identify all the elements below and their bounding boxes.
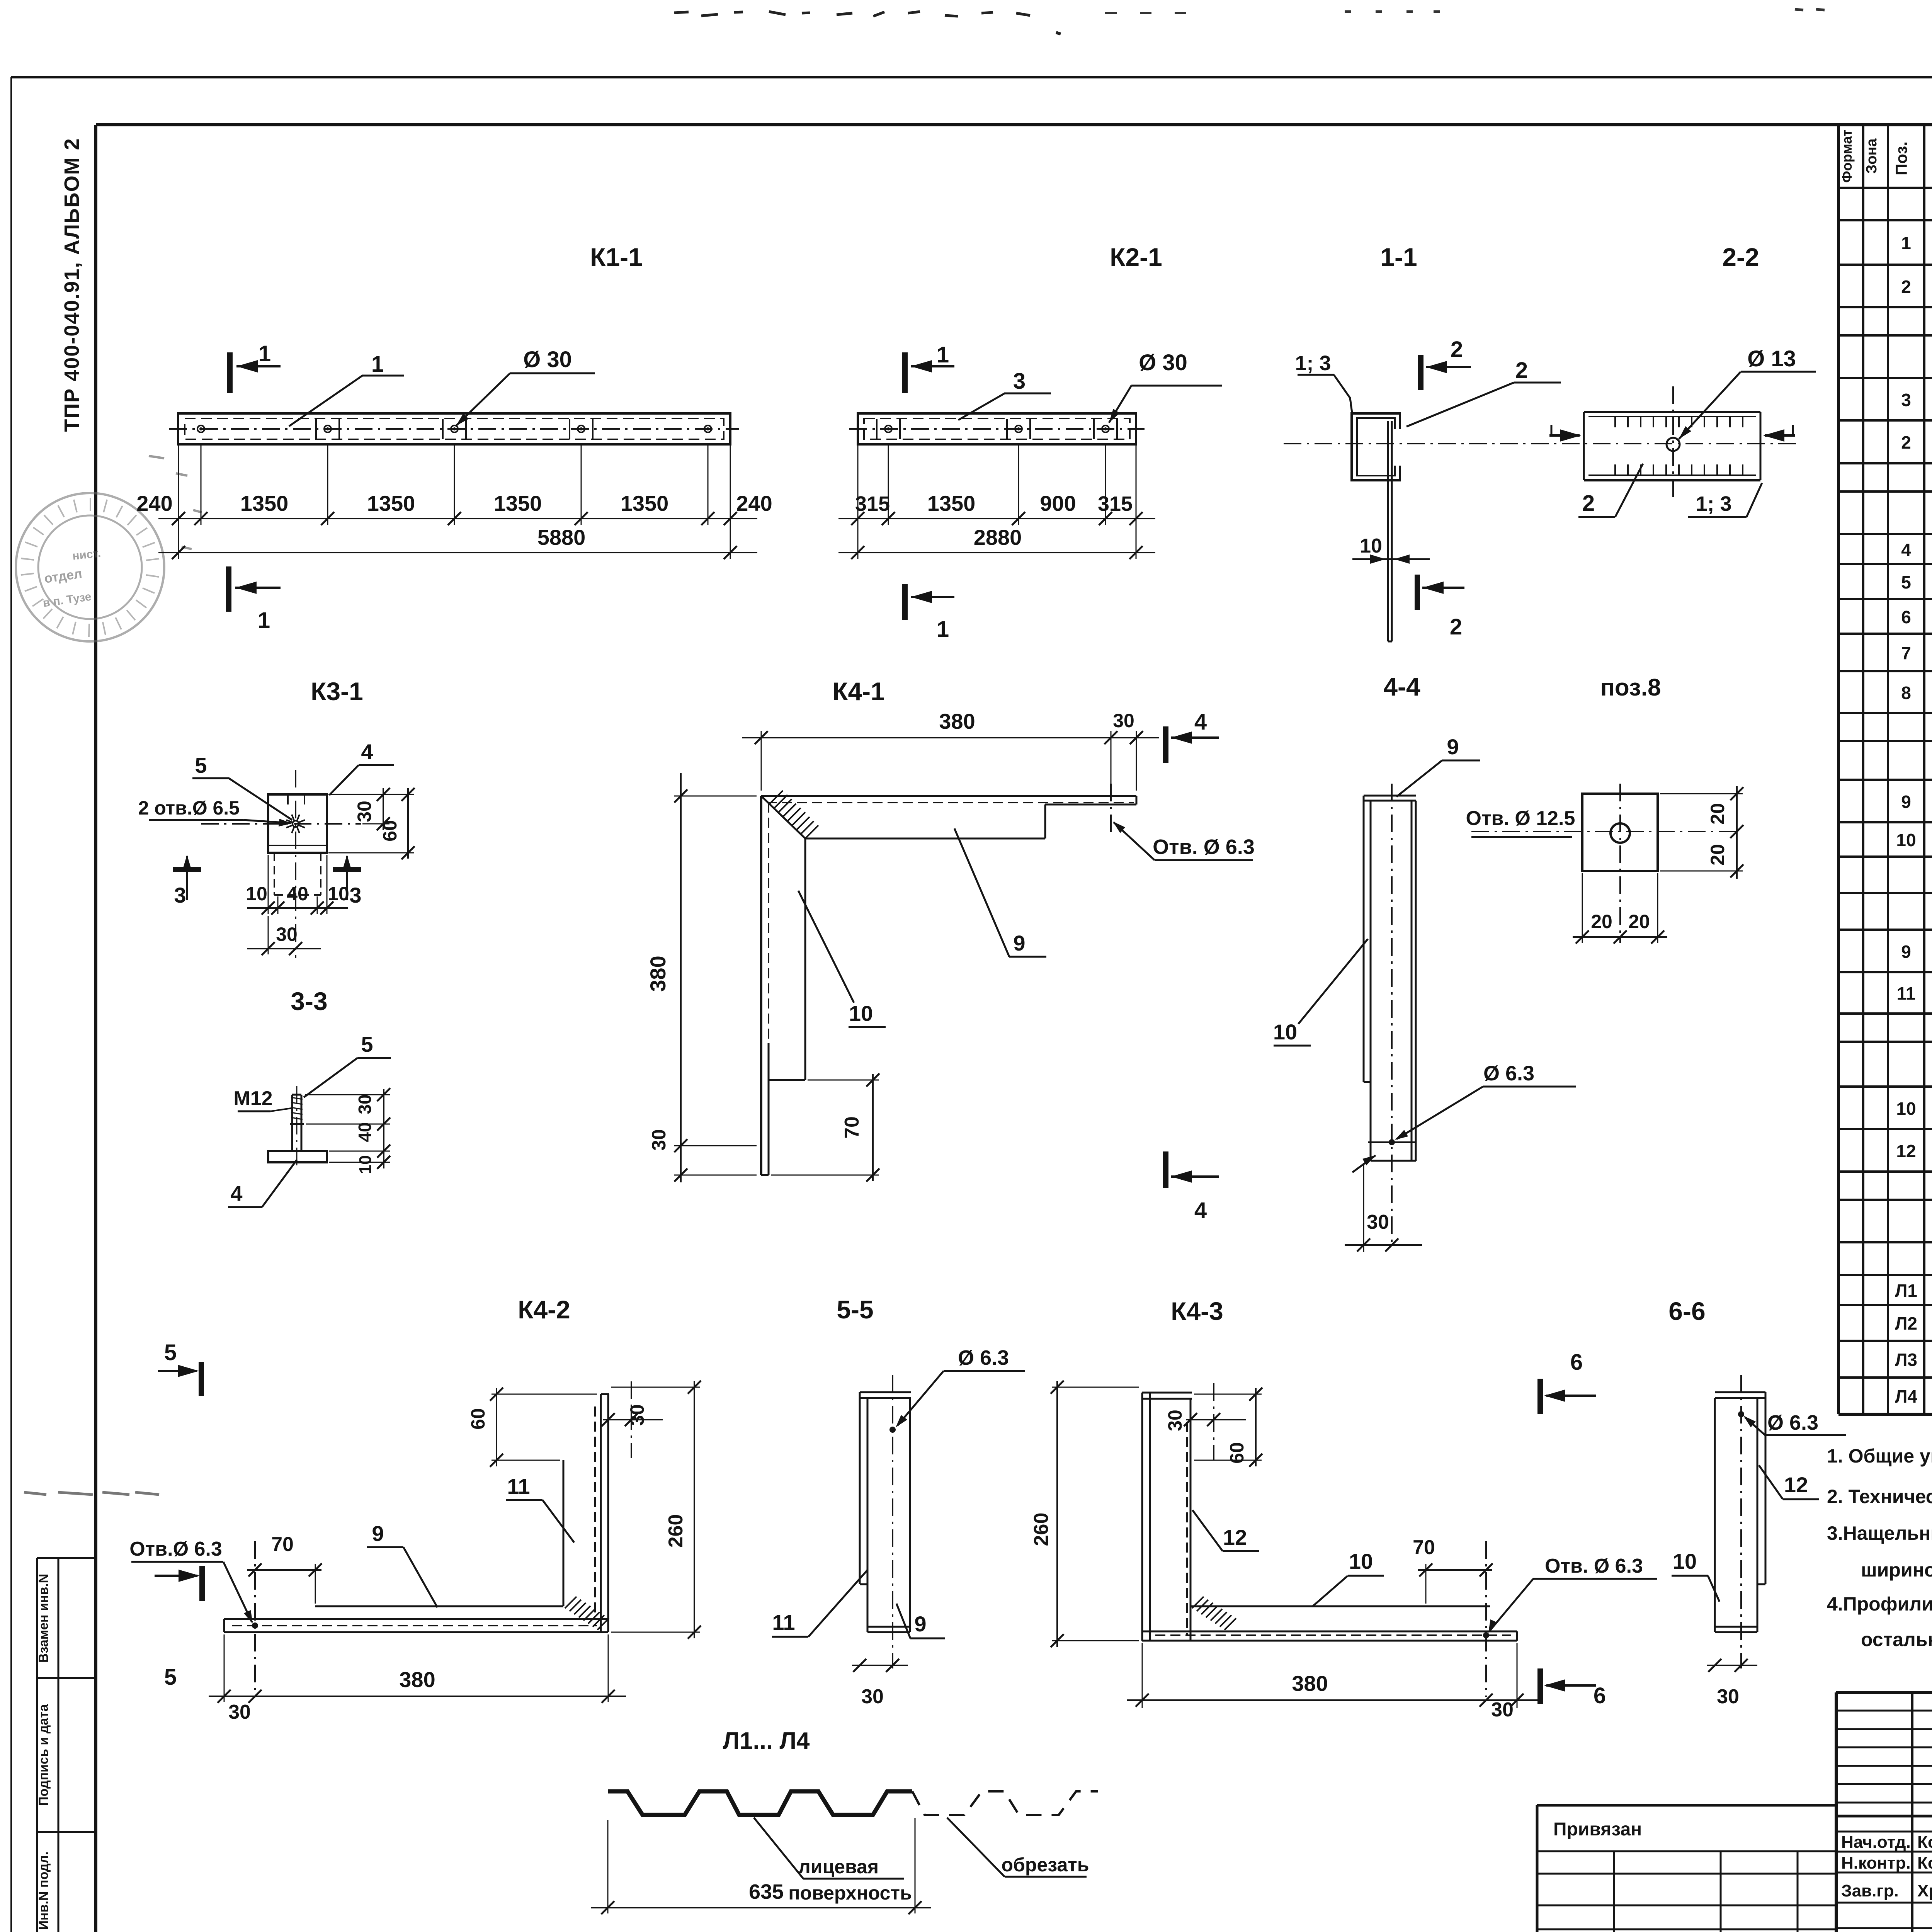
svg-text:5: 5 — [195, 753, 207, 777]
svg-text:30: 30 — [228, 1701, 251, 1723]
svg-text:2. Техническую спецификацию см: 2. Техническую спецификацию см. 400 -040… — [1827, 1486, 1932, 1507]
svg-text:40: 40 — [355, 1122, 375, 1142]
svg-text:2: 2 — [1450, 614, 1462, 639]
svg-text:1. Общие указания см. на листе: 1. Общие указания см. на листе 1. — [1827, 1445, 1932, 1467]
svg-text:10: 10 — [1673, 1549, 1697, 1573]
svg-text:20: 20 — [1707, 803, 1728, 825]
svg-text:12: 12 — [1896, 1141, 1916, 1161]
svg-text:380: 380 — [646, 956, 670, 992]
svg-text:12: 12 — [1223, 1525, 1247, 1549]
svg-text:Отв. Ø 6.3: Отв. Ø 6.3 — [1153, 835, 1255, 859]
svg-text:4.Профилированные листы С44-10: 4.Профилированные листы С44-1000-07 изго… — [1827, 1593, 1932, 1615]
svg-text:1350: 1350 — [621, 491, 669, 515]
svg-text:70: 70 — [271, 1533, 294, 1556]
svg-text:30: 30 — [1164, 1410, 1186, 1431]
svg-text:10: 10 — [356, 1155, 375, 1174]
svg-text:5-5: 5-5 — [837, 1295, 873, 1324]
svg-text:Ø 6.3: Ø 6.3 — [1483, 1062, 1534, 1085]
svg-text:1: 1 — [937, 342, 949, 367]
svg-text:30: 30 — [354, 801, 375, 822]
svg-text:635: 635 — [749, 1880, 784, 1903]
svg-text:К3-1: К3-1 — [311, 677, 363, 706]
svg-text:4: 4 — [361, 740, 373, 764]
svg-text:380: 380 — [1292, 1671, 1328, 1696]
svg-text:К4-1: К4-1 — [832, 677, 885, 706]
svg-text:4: 4 — [1194, 709, 1207, 735]
svg-text:12: 12 — [1784, 1473, 1808, 1497]
svg-text:2 отв.Ø 6.5: 2 отв.Ø 6.5 — [138, 797, 240, 819]
svg-text:1: 1 — [371, 352, 384, 377]
svg-text:5: 5 — [361, 1032, 373, 1056]
svg-text:3: 3 — [174, 883, 186, 907]
svg-text:Л1... Л4: Л1... Л4 — [723, 1728, 810, 1754]
svg-text:9: 9 — [1901, 942, 1911, 962]
svg-text:11: 11 — [1897, 983, 1916, 1003]
svg-text:К4-3: К4-3 — [1171, 1297, 1223, 1325]
svg-text:10: 10 — [1896, 1099, 1916, 1119]
svg-text:3-3: 3-3 — [291, 987, 327, 1015]
svg-text:Ø 13: Ø 13 — [1747, 346, 1796, 371]
svg-text:Хруслова: Хруслова — [1917, 1881, 1932, 1900]
svg-text:Кондратьев: Кондратьев — [1917, 1833, 1932, 1852]
svg-text:4: 4 — [1901, 540, 1911, 560]
svg-text:30: 30 — [648, 1129, 670, 1151]
svg-text:30: 30 — [861, 1685, 884, 1708]
svg-text:ТПР 400-040.91, АЛЬБОМ 2: ТПР 400-040.91, АЛЬБОМ 2 — [60, 138, 83, 432]
svg-text:380: 380 — [939, 709, 975, 733]
svg-text:2: 2 — [1515, 358, 1528, 383]
svg-text:9: 9 — [914, 1612, 926, 1636]
svg-text:20: 20 — [1628, 911, 1650, 932]
svg-text:Ø 6.3: Ø 6.3 — [958, 1346, 1009, 1369]
svg-text:240: 240 — [736, 491, 772, 515]
svg-text:1; 3: 1; 3 — [1295, 352, 1331, 375]
svg-text:10: 10 — [849, 1001, 873, 1026]
svg-text:60: 60 — [467, 1408, 489, 1430]
svg-text:Л3: Л3 — [1895, 1350, 1917, 1370]
svg-text:5: 5 — [164, 1340, 177, 1365]
svg-text:1: 1 — [258, 608, 270, 633]
svg-text:1: 1 — [259, 341, 271, 366]
svg-text:1: 1 — [1901, 233, 1911, 253]
svg-text:10: 10 — [1360, 535, 1382, 557]
svg-text:30: 30 — [355, 1094, 375, 1114]
svg-text:Поз.: Поз. — [1892, 141, 1910, 175]
svg-text:11: 11 — [772, 1610, 795, 1634]
svg-text:К4-2: К4-2 — [518, 1295, 570, 1324]
svg-text:Взамен инв.N: Взамен инв.N — [36, 1574, 51, 1663]
svg-text:Отв.Ø 6.3: Отв.Ø 6.3 — [129, 1538, 222, 1560]
svg-text:Ø 6.3: Ø 6.3 — [1767, 1411, 1818, 1434]
svg-text:70: 70 — [841, 1116, 863, 1139]
svg-text:6: 6 — [1901, 607, 1911, 627]
svg-text:10: 10 — [1273, 1020, 1297, 1044]
svg-text:9: 9 — [1447, 735, 1459, 759]
svg-text:2: 2 — [1582, 491, 1595, 516]
svg-text:Зав.гр.: Зав.гр. — [1841, 1881, 1899, 1900]
svg-text:Н.контр.: Н.контр. — [1841, 1854, 1911, 1872]
svg-text:900: 900 — [1040, 491, 1076, 515]
svg-text:2: 2 — [1901, 277, 1911, 297]
svg-text:3: 3 — [1901, 390, 1911, 410]
svg-text:Подпись и дата: Подпись и дата — [36, 1704, 51, 1806]
svg-text:4-4: 4-4 — [1383, 672, 1420, 701]
svg-text:11: 11 — [507, 1474, 530, 1498]
svg-text:2-2: 2-2 — [1722, 243, 1759, 271]
svg-text:Зона: Зона — [1864, 138, 1880, 174]
svg-text:2: 2 — [1451, 337, 1463, 362]
svg-text:6: 6 — [1594, 1683, 1606, 1708]
svg-text:4: 4 — [230, 1181, 242, 1206]
svg-text:315: 315 — [855, 492, 890, 515]
svg-text:Кондратьев: Кондратьев — [1917, 1854, 1932, 1872]
svg-text:60: 60 — [379, 820, 401, 842]
svg-text:2880: 2880 — [974, 525, 1022, 549]
svg-text:260: 260 — [665, 1514, 687, 1548]
svg-text:30: 30 — [1113, 710, 1134, 731]
svg-text:поз.8: поз.8 — [1600, 674, 1661, 701]
svg-text:3: 3 — [349, 883, 361, 907]
svg-text:Инв.N подл.: Инв.N подл. — [36, 1852, 51, 1930]
svg-text:6: 6 — [1570, 1350, 1583, 1375]
svg-text:1350: 1350 — [240, 491, 289, 515]
svg-text:10: 10 — [1896, 830, 1916, 850]
svg-text:поверхность: поверхность — [788, 1882, 912, 1904]
svg-text:9: 9 — [1013, 931, 1025, 955]
svg-text:M12: M12 — [233, 1087, 272, 1110]
svg-text:7: 7 — [1901, 643, 1911, 663]
svg-text:Л2: Л2 — [1895, 1313, 1917, 1333]
svg-text:30: 30 — [1717, 1685, 1739, 1708]
svg-text:3: 3 — [1013, 369, 1026, 394]
svg-text:К1-1: К1-1 — [590, 243, 643, 271]
svg-text:Чарина: Чарина — [1917, 1929, 1932, 1932]
svg-text:30: 30 — [1367, 1211, 1389, 1233]
svg-text:260: 260 — [1030, 1513, 1053, 1546]
svg-text:Привязан: Привязан — [1553, 1819, 1642, 1840]
svg-text:Инж.: Инж. — [1841, 1929, 1881, 1932]
svg-text:5880: 5880 — [537, 525, 586, 549]
svg-text:315: 315 — [1098, 492, 1133, 515]
svg-text:шириной , указанной на чертеже: шириной , указанной на чертеже. — [1861, 1559, 1932, 1581]
svg-text:4: 4 — [1194, 1198, 1207, 1223]
svg-text:20: 20 — [1591, 911, 1612, 932]
svg-text:лицевая: лицевая — [798, 1856, 879, 1878]
svg-text:5: 5 — [164, 1665, 177, 1690]
svg-text:70: 70 — [1413, 1536, 1435, 1559]
svg-text:остальные элементы - из стали: остальные элементы - из стали марки С235… — [1861, 1629, 1932, 1650]
svg-text:Инв. N 9: Инв. N 9 — [1543, 1930, 1611, 1932]
svg-text:9: 9 — [372, 1521, 384, 1546]
svg-text:1350: 1350 — [927, 491, 976, 515]
svg-text:5: 5 — [1901, 572, 1911, 592]
svg-text:2: 2 — [1901, 432, 1911, 452]
svg-text:240: 240 — [136, 491, 172, 515]
svg-text:9: 9 — [1901, 792, 1911, 812]
svg-text:1: 1 — [937, 617, 949, 642]
svg-text:30: 30 — [276, 923, 298, 945]
svg-text:Отв. Ø 6.3: Отв. Ø 6.3 — [1545, 1555, 1643, 1577]
svg-text:Отв. Ø 12.5: Отв. Ø 12.5 — [1466, 807, 1575, 830]
svg-text:8: 8 — [1901, 683, 1911, 703]
svg-text:3.Нащельники Л1...Л4 выполняют: 3.Нащельники Л1...Л4 выполняются из проф… — [1827, 1522, 1932, 1544]
svg-text:1-1: 1-1 — [1380, 243, 1417, 271]
svg-text:обрезать: обрезать — [1001, 1854, 1089, 1876]
svg-text:6-6: 6-6 — [1668, 1297, 1705, 1325]
svg-text:Ø 30: Ø 30 — [523, 347, 572, 372]
svg-text:Ø 30: Ø 30 — [1139, 350, 1187, 375]
svg-text:Л1: Л1 — [1895, 1281, 1917, 1301]
svg-text:40: 40 — [287, 883, 308, 905]
svg-text:Л4: Л4 — [1895, 1386, 1917, 1406]
svg-text:10: 10 — [246, 883, 267, 905]
svg-text:Нач.отд.: Нач.отд. — [1841, 1833, 1911, 1852]
svg-text:1; 3: 1; 3 — [1696, 492, 1731, 515]
svg-text:20: 20 — [1707, 844, 1728, 866]
svg-text:380: 380 — [399, 1667, 435, 1692]
svg-text:Формат: Формат — [1839, 129, 1855, 183]
svg-text:10: 10 — [1349, 1549, 1373, 1573]
svg-text:1350: 1350 — [494, 491, 542, 515]
svg-text:К2-1: К2-1 — [1110, 243, 1162, 271]
svg-text:30: 30 — [1491, 1699, 1514, 1721]
svg-text:1350: 1350 — [367, 491, 415, 515]
